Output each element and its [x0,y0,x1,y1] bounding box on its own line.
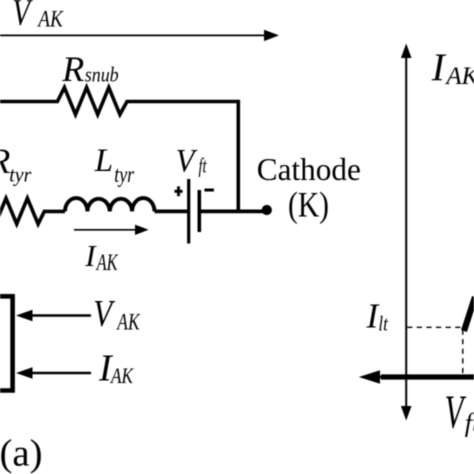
svg-text:lt: lt [378,312,388,336]
svg-text:AK: AK [37,6,65,31]
svg-text:ft: ft [199,154,208,178]
svg-text:I: I [84,238,97,273]
svg-text:tyr: tyr [114,162,135,188]
svg-text:AK: AK [109,363,133,388]
svg-text:(K): (K) [288,185,329,225]
svg-text:R: R [61,49,84,89]
svg-text:Cathode: Cathode [257,151,361,187]
svg-text:I: I [431,46,447,89]
svg-text:AK: AK [95,250,119,275]
svg-text:V: V [445,386,467,439]
svg-text:AK: AK [116,310,141,336]
svg-text:V: V [93,293,115,335]
svg-text:AK: AK [444,63,474,90]
svg-text:(a): (a) [0,433,43,474]
svg-text:V: V [12,0,32,34]
svg-text:tyr: tyr [9,163,32,187]
svg-text:L: L [94,143,113,179]
svg-text:ft: ft [465,409,474,438]
svg-text:snub: snub [85,63,119,87]
